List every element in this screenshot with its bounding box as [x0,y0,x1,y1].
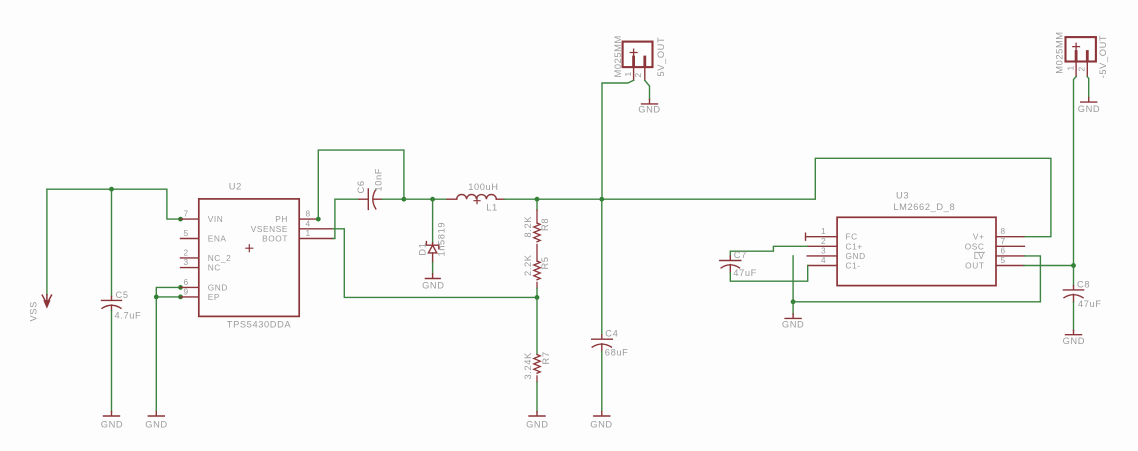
capacitor C5 [102,296,122,310]
svg-text:C7: C7 [734,250,747,260]
svg-text:8: 8 [1001,226,1006,236]
wire 5V conn pin1 to rail [602,80,634,199]
svg-text:C1+: C1+ [846,241,863,251]
wire main 5V rail to U3 V+ [504,158,1051,236]
svg-text:5: 5 [1001,255,1006,265]
svg-text:GND: GND [1078,104,1100,114]
wire D1 cathode [432,199,434,243]
wire -5V conn pin2 to gnd [1087,77,1088,98]
wire C8 top [1073,266,1075,286]
wire C8 bottom [1073,302,1075,330]
svg-text:VSENSE: VSENSE [251,224,288,234]
svg-text:6: 6 [184,277,189,287]
wire C4 top [601,199,603,335]
svg-text:U2: U2 [229,182,242,192]
ground U3 GND [785,314,801,318]
svg-text:4: 4 [821,255,826,265]
capacitor C4 [592,335,613,352]
pin 6 LV [996,255,1025,257]
svg-text:C8: C8 [1077,280,1090,290]
ground C5 GND [104,412,120,416]
node R8 top junction [535,197,540,202]
pin bar 1 5V conn [632,57,635,65]
svg-text:EP: EP [208,292,220,302]
pin bar 2 -5V conn [1086,52,1089,60]
svg-text:D1: D1 [417,243,427,256]
svg-text:1: 1 [623,72,633,77]
svg-text:2: 2 [633,73,643,78]
svg-text:3: 3 [821,245,826,255]
svg-text:GND: GND [526,419,548,429]
svg-text:PH: PH [275,214,288,224]
ground D1 GND [425,274,440,279]
pin lead 1 -5V conn [1075,62,1077,77]
svg-text:2: 2 [184,247,189,257]
svg-text:C5: C5 [116,290,129,300]
resistor R7 3.24K [534,355,540,383]
node EP corner [154,295,159,300]
svg-text:7: 7 [1001,236,1006,246]
wire main output node [404,198,447,200]
svg-text:1: 1 [821,226,826,236]
pin 8 PH [299,218,318,220]
ground -5V conn GND [1081,98,1097,103]
wire U2 pin6/pin9 to ground [156,287,180,411]
node pin7 [178,217,183,222]
pin 7 VIN [181,218,199,220]
pin 3 NC [181,267,199,269]
pin 1 BOOT [299,238,333,240]
pin lead 2 5V conn [644,67,646,80]
svg-text:C6: C6 [356,180,366,193]
svg-text:VSS: VSS [29,301,39,321]
svg-text:6: 6 [1001,245,1006,255]
wire VSENSE feedback [333,229,537,298]
pin bar 1 -5V conn [1075,52,1078,60]
resistor R5 2.2K [534,261,540,289]
node pin6 [178,285,183,290]
svg-text:GND: GND [846,251,866,261]
origin cross U2 [246,245,253,252]
svg-text:U3: U3 [896,191,909,201]
svg-text:47uF: 47uF [733,268,757,278]
svg-text:M025MM: M025MM [613,35,623,77]
svg-text:ENA: ENA [208,234,227,244]
node D1 junction [430,197,435,202]
node U3 gnd junction [791,299,796,304]
wire PH bypass loop to C6 right [318,150,404,219]
ground C8 GND [1066,330,1082,334]
wire C5 bottom [111,311,113,412]
svg-text:NC: NC [208,263,221,273]
svg-text:BOOT: BOOT [262,234,288,244]
svg-text:GND: GND [101,419,123,429]
node pin8 [316,217,321,222]
wire R8 top lead [536,199,538,210]
svg-text:1n5819: 1n5819 [437,222,447,257]
svg-text:8.2K: 8.2K [523,216,533,238]
svg-text:C1-: C1- [846,261,861,271]
wire C1- net from C7 bottom [730,266,807,282]
pin 1 FC with nc cross [806,233,838,240]
svg-text:2: 2 [821,236,826,246]
wire junction to gnd symbol [792,302,794,314]
plus mark 5V conn [630,49,637,56]
pin 6 GND [181,286,199,288]
op-amp U3 LM2662_D_8 box [837,217,996,285]
svg-text:R8: R8 [540,218,550,231]
svg-text:LM2662_D_8: LM2662_D_8 [893,202,955,212]
svg-text:3.24K: 3.24K [523,352,533,379]
node OUT junction [1071,263,1076,268]
svg-text:100uH: 100uH [468,182,498,192]
svg-text:GND: GND [590,419,612,429]
resistor R8 8.2K [534,210,540,261]
wire BOOT up to C6 left [333,199,359,238]
wire R7 bottom [536,382,538,412]
pin 2 C1+ [807,245,837,247]
pin 3 GND [807,255,837,257]
node C6 loop junction [402,197,407,202]
pin bar 2 5V conn [643,57,646,65]
connector X2 -5V_OUT box [1066,37,1096,61]
svg-text:-5V_OUT: -5V_OUT [1098,35,1108,78]
svg-text:2: 2 [1077,67,1087,72]
svg-text:1: 1 [1065,66,1075,71]
svg-text:4: 4 [306,218,311,228]
wire C4 bottom [601,352,603,412]
pin 7 OSC [996,245,1024,247]
svg-text:FC: FC [846,232,858,242]
node C4 / 5V_OUT junction [599,197,604,202]
svg-text:9: 9 [184,287,189,297]
ground 5V conn GND [642,99,658,104]
wire -5V conn pin1 down to OUT junction [1074,77,1077,266]
svg-text:GND: GND [145,419,167,429]
svg-text:8: 8 [306,209,311,219]
capacitor C7 [720,256,741,273]
wire D1 anode to gnd [432,263,434,275]
supply symbol VSS arrow [42,295,51,307]
svg-text:OUT: OUT [965,261,984,271]
inductor L1 [447,198,457,200]
svg-text:4.7uF: 4.7uF [115,311,142,321]
svg-text:GND: GND [638,105,660,115]
svg-text:NC_2: NC_2 [208,253,232,263]
pin 8 V+ [996,236,1024,238]
origin cross L1 [474,198,480,204]
ground EP GND [148,412,164,416]
svg-text:GND: GND [782,320,804,330]
svg-text:3: 3 [184,257,189,267]
svg-text:1: 1 [306,228,311,238]
op-amp U2 TPS5430DDA box [199,199,299,317]
svg-text:GND: GND [1063,336,1085,346]
svg-text:5V_OUT: 5V_OUT [656,37,666,77]
pin lead 2 -5V conn [1086,62,1088,77]
capacitor C6 [359,189,382,209]
node pin9 [178,295,183,300]
pin 9 EP [181,296,199,298]
svg-text:R7: R7 [541,351,551,364]
svg-text:68uF: 68uF [605,348,629,358]
svg-text:7: 7 [184,209,189,219]
pin 5 ENA [181,238,199,240]
svg-text:GND: GND [422,281,444,291]
plus mark -5V conn [1073,43,1080,50]
pin 2 NC_2 [181,257,199,259]
wire C6 right to node [382,198,404,200]
svg-text:L1: L1 [486,202,498,212]
pin 4 C1- [808,265,837,267]
wire R5 bottom to junction [536,289,538,298]
wire U3 GND pin down [792,256,794,302]
svg-text:V+: V+ [973,232,985,242]
diode D1 1n5819 schottky [426,242,438,263]
svg-text:M025MM: M025MM [1055,31,1065,73]
svg-text:R5: R5 [540,256,550,269]
svg-text:TPS5430DDA: TPS5430DDA [227,320,292,330]
svg-text:5: 5 [184,228,189,238]
wire VSS branch vertical [46,189,48,295]
svg-text:10nF: 10nF [374,168,384,192]
wire C5 top [111,189,113,296]
wire LV net loop [793,256,1040,302]
wire VIN net top-left horizontal [47,189,181,219]
node junction VIN/C5 [109,187,114,192]
wire junction to R7 [536,297,538,354]
wire OUT net to C8 junction [1024,265,1074,267]
wire C1+ net to C7 top [730,246,807,256]
pin 4 VSENSE [299,228,333,230]
connector X1 5V_OUT box [623,42,653,68]
ground C4 GND [594,412,610,416]
svg-text:GND: GND [208,282,228,292]
wire 5V conn pin2 to gnd [645,80,650,99]
svg-text:OSC: OSC [965,241,985,251]
pin 5 OUT [996,265,1024,267]
svg-text:VIN: VIN [208,214,224,224]
pin lead 1 5V conn [633,67,635,80]
svg-text:47uF: 47uF [1078,299,1102,309]
capacitor C8 [1063,286,1083,302]
svg-text:C4: C4 [605,329,618,339]
svg-text:2.2K: 2.2K [523,254,533,276]
node feedback junction [535,295,540,300]
ground R7 GND [529,412,545,416]
